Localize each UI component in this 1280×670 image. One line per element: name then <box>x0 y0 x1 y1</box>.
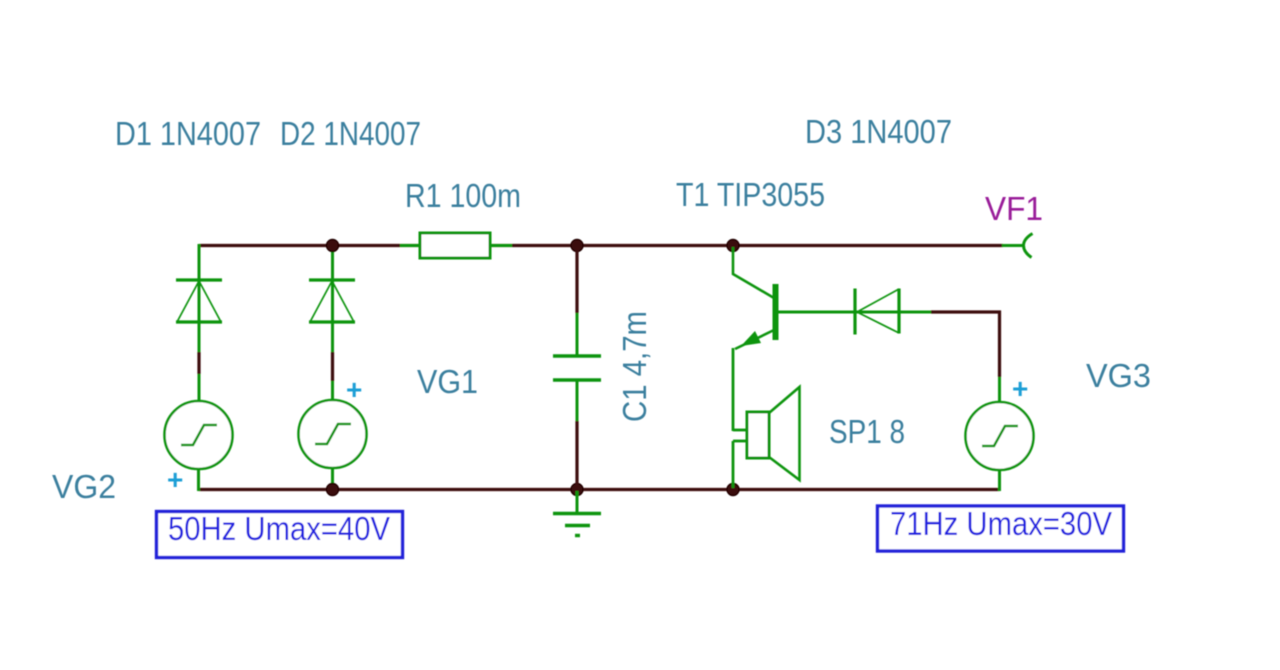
wire VG3 top lead <box>998 377 1001 403</box>
svg-text:VF1: VF1 <box>985 190 1043 227</box>
probe VF1 <box>1002 234 1033 258</box>
annotation box 71Hz <box>878 505 1124 551</box>
node bottom-SP1 <box>727 484 739 496</box>
svg-text:C1 4,7m: C1 4,7m <box>616 311 653 422</box>
node top-T1 <box>727 240 739 252</box>
annotation box 50Hz <box>157 510 403 558</box>
diode D1 <box>176 280 222 322</box>
node top-C1 <box>571 240 583 252</box>
wire D3 to VG3 corner <box>931 312 1000 377</box>
svg-text:VG3: VG3 <box>1086 357 1151 394</box>
svg-text:+: + <box>346 374 362 405</box>
wire bottom horizontal <box>199 488 1000 491</box>
wire D2 branch top <box>331 247 334 322</box>
diode D2 <box>309 280 355 322</box>
svg-text:D2 1N4007: D2 1N4007 <box>280 115 421 152</box>
svg-text:VG1: VG1 <box>417 363 478 400</box>
wire D1 to VG2 <box>198 322 201 402</box>
speaker SP1 <box>733 387 800 488</box>
resistor R1 <box>400 233 512 258</box>
wire VG3 bottom lead <box>998 470 1001 491</box>
node bottom-C1 <box>571 484 583 496</box>
generator VG3 <box>966 402 1034 470</box>
svg-text:71Hz Umax=30V: 71Hz Umax=30V <box>890 505 1112 542</box>
generator VG2 <box>165 401 233 469</box>
svg-text:D1 1N4007: D1 1N4007 <box>115 115 261 152</box>
svg-text:SP1 8: SP1 8 <box>829 413 905 450</box>
wire top horizontal <box>199 244 1003 247</box>
wire left vertical drop D1 branch <box>198 244 201 322</box>
diode D3 <box>855 289 931 335</box>
wire VG2 bottom lead <box>197 468 200 491</box>
svg-text:R1 100m: R1 100m <box>405 177 521 214</box>
svg-text:+: + <box>1012 373 1028 404</box>
capacitor C1 <box>553 247 601 488</box>
ground <box>553 491 601 536</box>
node bottom-VG1 <box>327 484 339 496</box>
generator VG1 <box>299 400 367 468</box>
svg-text:T1 TIP3055: T1 TIP3055 <box>676 176 825 213</box>
svg-text:+: + <box>167 464 183 495</box>
svg-text:D3 1N4007: D3 1N4007 <box>805 113 952 150</box>
svg-text:50Hz Umax=40V: 50Hz Umax=40V <box>168 510 390 547</box>
svg-text:VG2: VG2 <box>52 468 116 505</box>
transistor T1 <box>733 247 856 431</box>
wire D2 to VG1 <box>331 322 334 401</box>
node top-D2 <box>327 240 339 252</box>
wire VG1 bottom lead <box>331 467 334 490</box>
